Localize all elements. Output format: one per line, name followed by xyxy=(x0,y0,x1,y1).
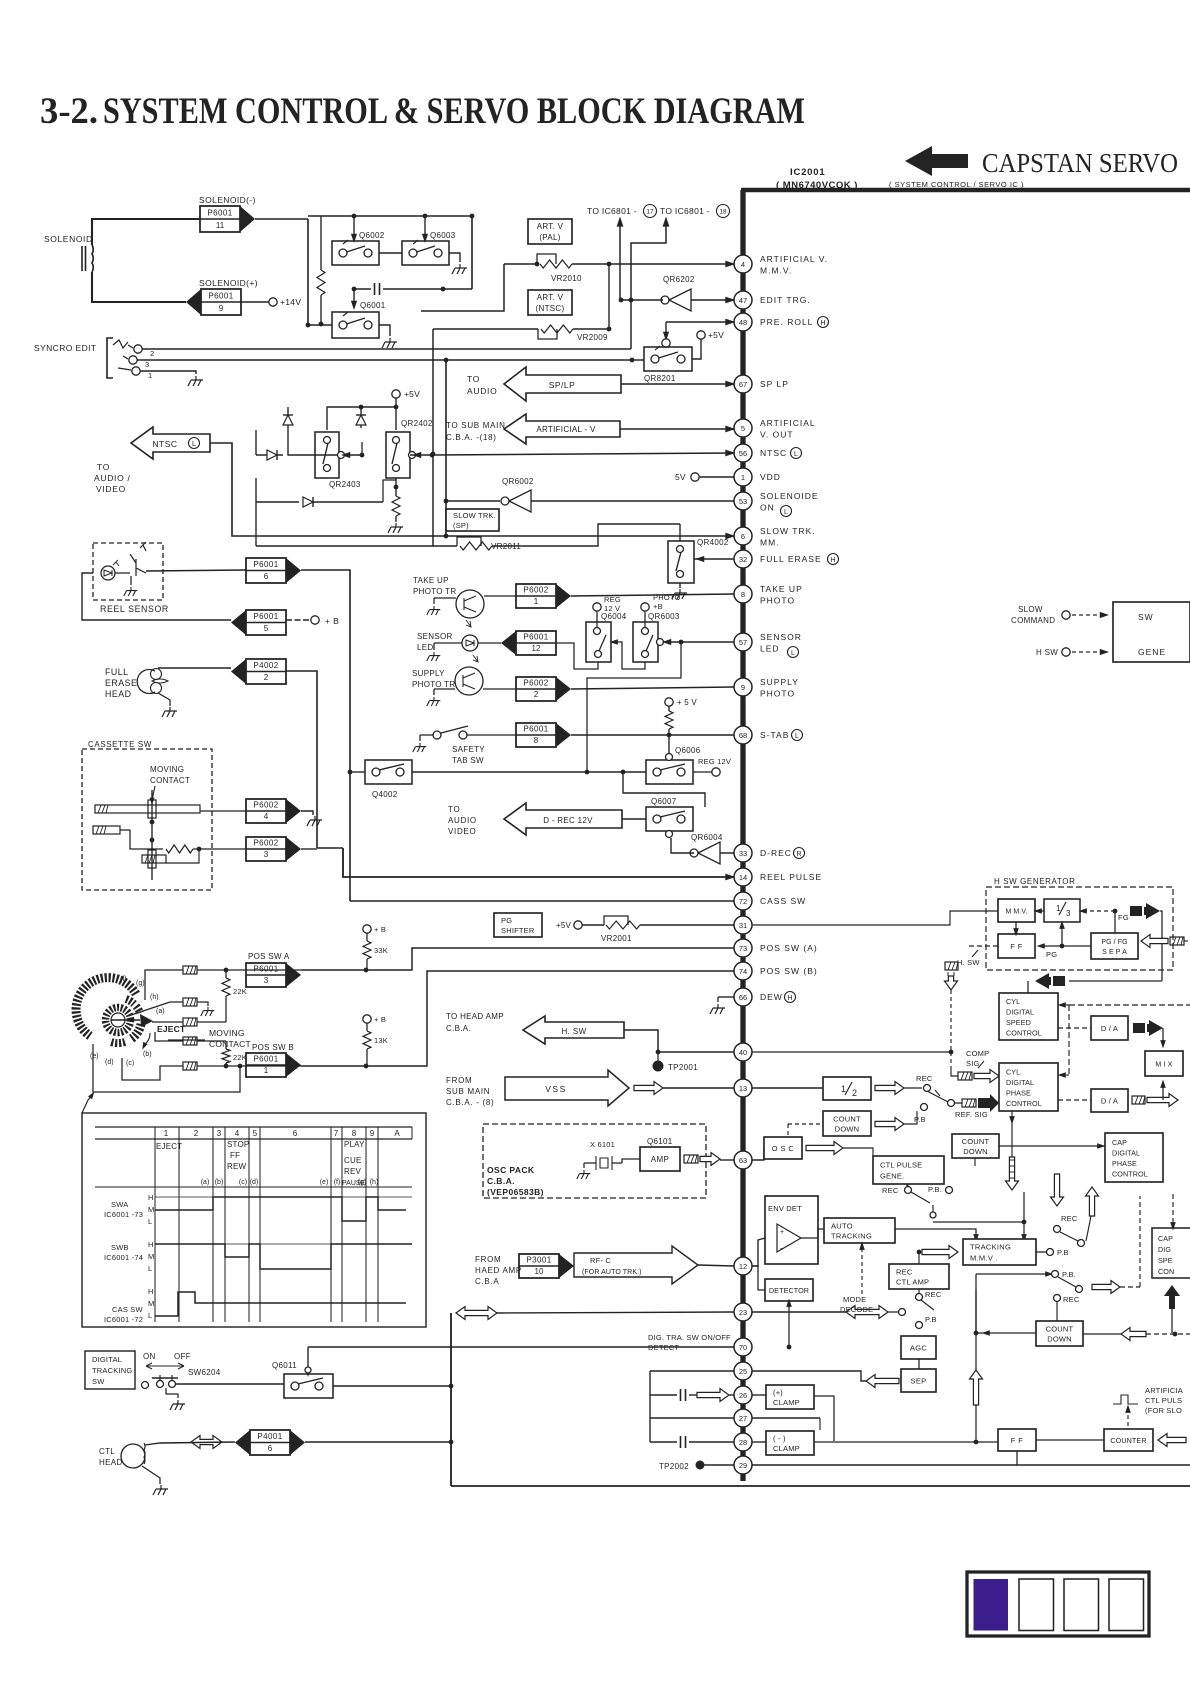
22K resistor A xyxy=(224,968,229,973)
svg-text:12: 12 xyxy=(739,1262,747,1271)
svg-text:AUDIO /: AUDIO / xyxy=(94,473,131,483)
wire count down2 to cap phase xyxy=(999,1145,1105,1147)
wire P4002 right xyxy=(286,671,317,848)
svg-text:H: H xyxy=(830,557,835,564)
dash H SW down xyxy=(950,990,952,1052)
svg-text:SW: SW xyxy=(92,1377,105,1386)
svg-text:P6001: P6001 xyxy=(207,209,232,218)
svg-text:DIGITAL: DIGITAL xyxy=(1112,1148,1140,1157)
wire P6001-8 to pin68 xyxy=(571,734,734,736)
wire QR6002 output vertical xyxy=(445,360,447,536)
wire ctl pulse gene down xyxy=(906,1184,908,1186)
svg-text:EDIT TRG.: EDIT TRG. xyxy=(760,295,811,305)
svg-text:FULL ERASE: FULL ERASE xyxy=(760,554,822,564)
svg-text:SEP: SEP xyxy=(911,1377,927,1386)
rotary row3 xyxy=(183,1018,197,1026)
svg-text:PRE. ROLL: PRE. ROLL xyxy=(760,317,813,327)
block 1/3 xyxy=(1044,899,1080,922)
svg-text:33: 33 xyxy=(739,849,747,858)
svg-text:GENE.: GENE. xyxy=(880,1172,904,1181)
wire to IC6801-17 xyxy=(619,220,621,300)
svg-text:L: L xyxy=(148,1217,153,1226)
svg-text:+5V: +5V xyxy=(708,330,724,340)
svg-text:REEL SENSOR: REEL SENSOR xyxy=(100,604,169,614)
SWB waveform xyxy=(155,1244,412,1269)
H.SW GENERATOR dashed box xyxy=(986,887,1173,970)
svg-text:+ B: + B xyxy=(374,1015,386,1024)
wire SP/LP to pin67 xyxy=(621,383,734,385)
svg-text:REEL PULSE: REEL PULSE xyxy=(760,872,822,882)
svg-text:CYL: CYL xyxy=(1006,997,1020,1006)
wire solenoid top to P6001-11 xyxy=(92,219,200,245)
svg-text:L: L xyxy=(791,650,795,657)
bottom rail horizontal xyxy=(451,1485,1190,1487)
connector P6001-11 xyxy=(200,206,240,232)
connector P6002-3 xyxy=(246,837,286,861)
pin 14 xyxy=(734,868,752,886)
block MMV xyxy=(998,899,1035,922)
svg-text:(NTSC): (NTSC) xyxy=(536,304,565,313)
svg-text:COUNTER: COUNTER xyxy=(1110,1436,1146,1445)
svg-text:40: 40 xyxy=(739,1048,747,1057)
svg-text:57: 57 xyxy=(739,638,747,647)
svg-text:TP2002: TP2002 xyxy=(659,1462,689,1471)
svg-text:CAPSTAN SERVO: CAPSTAN SERVO xyxy=(982,148,1178,178)
svg-text:S-TAB: S-TAB xyxy=(760,730,789,740)
svg-text:SYNCRO EDIT: SYNCRO EDIT xyxy=(34,343,97,353)
svg-text:(c): (c) xyxy=(126,1060,134,1067)
wire D-REC to Q6007 xyxy=(622,818,646,820)
wire env det to auto tracking xyxy=(801,1229,824,1238)
svg-text:H SW: H SW xyxy=(1036,648,1058,657)
svg-text:POS SW B: POS SW B xyxy=(252,1043,294,1052)
wire Q6006 left node xyxy=(412,771,646,773)
svg-text:PG: PG xyxy=(501,916,512,925)
svg-text:+B: +B xyxy=(653,602,663,611)
second feed into tracking mmv top xyxy=(1023,1192,1025,1237)
connector P6001-1 xyxy=(246,1053,286,1077)
connector P4001-6 xyxy=(250,1430,290,1455)
svg-text:28: 28 xyxy=(739,1438,747,1447)
svg-text:REC: REC xyxy=(925,1290,942,1299)
wire pin28 to clamp- xyxy=(752,1441,766,1443)
block COUNT DOWN 2 xyxy=(952,1134,999,1158)
svg-text:63: 63 xyxy=(739,1156,747,1165)
svg-text:AUDIO: AUDIO xyxy=(467,386,497,396)
wire P6002-1 to pin8 xyxy=(571,594,734,596)
svg-text:SPE: SPE xyxy=(1158,1256,1173,1265)
rotary row5 xyxy=(183,1062,197,1070)
block AGC xyxy=(901,1336,936,1359)
svg-text:4: 4 xyxy=(741,260,745,269)
svg-text:AUTO: AUTO xyxy=(831,1222,853,1231)
connector P4002-2 xyxy=(246,659,286,684)
svg-text:VR2001: VR2001 xyxy=(601,934,632,943)
+B 13K B xyxy=(363,1015,371,1023)
open arrow into SEP xyxy=(866,1375,899,1388)
wire P4001 to rail xyxy=(305,1441,451,1443)
svg-text:22K: 22K xyxy=(233,1053,247,1062)
dash into phase from right xyxy=(1058,1072,1066,1078)
open arrow after count down 1 xyxy=(875,1118,904,1131)
double arrow CTL xyxy=(191,1436,222,1449)
svg-text:FF: FF xyxy=(230,1151,240,1160)
svg-text:CUE: CUE xyxy=(344,1156,362,1165)
wire P6001-5 to +B xyxy=(286,619,311,621)
svg-text:L: L xyxy=(148,1264,153,1273)
wire P6001-5 left xyxy=(82,573,231,620)
wire pin48 down to QR8201 xyxy=(665,322,667,334)
wire pin33 xyxy=(720,852,734,854)
svg-text:POS SW A: POS SW A xyxy=(248,952,290,961)
svg-text:DEW: DEW xyxy=(760,992,783,1002)
svg-text:CTL AMP: CTL AMP xyxy=(896,1278,929,1287)
pin 70 xyxy=(734,1338,752,1356)
open arrow into PG/FG SEPA xyxy=(1141,935,1168,948)
connector P6001-3 xyxy=(246,963,286,987)
svg-text:M: M xyxy=(148,1299,155,1308)
svg-text:SW: SW xyxy=(1138,612,1154,622)
svg-text:CAP: CAP xyxy=(1158,1234,1173,1243)
svg-text:CAP: CAP xyxy=(1112,1138,1127,1147)
dashed feed to count down xyxy=(788,1123,823,1125)
svg-text:P6002: P6002 xyxy=(523,586,548,595)
svg-text:2: 2 xyxy=(852,1088,857,1098)
svg-text:P4001: P4001 xyxy=(257,1432,282,1441)
svg-text:CTL: CTL xyxy=(99,1447,115,1456)
svg-text:29: 29 xyxy=(739,1461,747,1470)
svg-text:2: 2 xyxy=(534,690,539,699)
svg-text:DECODE: DECODE xyxy=(840,1305,873,1314)
svg-text:P6001: P6001 xyxy=(523,725,548,734)
wire syncro line A xyxy=(142,348,631,350)
svg-text:1: 1 xyxy=(148,371,152,380)
+B 33K A xyxy=(363,925,371,933)
svg-text:P6001: P6001 xyxy=(208,292,233,301)
rotary switch body xyxy=(76,978,141,1044)
up arrow to tracking mmv xyxy=(975,1405,977,1442)
svg-text:IC6001 -73: IC6001 -73 xyxy=(104,1210,143,1219)
svg-text:VR2010: VR2010 xyxy=(551,274,582,283)
svg-text:IC6001 -72: IC6001 -72 xyxy=(104,1315,143,1324)
IC2001 bus top horizontal xyxy=(741,188,1190,193)
wire P6001-9 to +14V xyxy=(241,301,269,303)
svg-text:P.B: P.B xyxy=(914,1115,926,1124)
svg-text:VR2009: VR2009 xyxy=(577,333,608,342)
svg-text:(d): (d) xyxy=(250,1179,259,1186)
svg-text:4: 4 xyxy=(264,812,269,821)
block CAP DIG SPEE CON xyxy=(1152,1228,1190,1278)
svg-text:PG / FG: PG / FG xyxy=(1101,939,1127,946)
artificial ctl pulse glyph xyxy=(1113,1395,1138,1404)
svg-text:32: 32 xyxy=(739,555,747,564)
svg-text:DOWN: DOWN xyxy=(963,1147,988,1156)
vertical join pins25-28 xyxy=(649,1371,651,1442)
svg-text:(h): (h) xyxy=(150,994,159,1001)
PHOTO +B QR6003 xyxy=(641,603,649,611)
PB above AGC xyxy=(916,1322,923,1329)
svg-text:2: 2 xyxy=(150,349,154,358)
svg-text:C.B.A: C.B.A xyxy=(475,1277,499,1286)
wire pin14 long xyxy=(317,847,343,849)
svg-text:X 6101: X 6101 xyxy=(590,1140,615,1149)
svg-text:O S C: O S C xyxy=(772,1144,795,1153)
svg-text:POS SW (B): POS SW (B) xyxy=(760,966,818,976)
svg-text:SLOW: SLOW xyxy=(1018,605,1043,614)
svg-text:AGC: AGC xyxy=(910,1344,927,1353)
svg-text:3: 3 xyxy=(264,850,269,859)
svg-text:(f): (f) xyxy=(120,976,127,983)
wire pin40 xyxy=(624,1030,734,1052)
svg-text:4: 4 xyxy=(235,1129,240,1138)
svg-text:47: 47 xyxy=(739,296,747,305)
svg-text:Q6004: Q6004 xyxy=(601,612,627,621)
svg-text:COMMAND: COMMAND xyxy=(1011,616,1055,625)
svg-text:PHOTO TR: PHOTO TR xyxy=(412,680,455,689)
svg-text:P6001: P6001 xyxy=(253,612,278,621)
svg-text:( - ): ( - ) xyxy=(773,1434,786,1443)
svg-text:F F: F F xyxy=(1011,1436,1023,1445)
hatched down arrow 2 xyxy=(1051,1174,1064,1206)
svg-text:P6001: P6001 xyxy=(253,560,278,569)
svg-text:8: 8 xyxy=(534,736,539,745)
svg-text:EJECT: EJECT xyxy=(157,1024,186,1034)
svg-text:REC: REC xyxy=(896,1268,913,1277)
svg-text:DIGITAL: DIGITAL xyxy=(1006,1078,1034,1087)
wire to black up arrow xyxy=(1171,1309,1173,1333)
svg-text:P6001: P6001 xyxy=(253,1055,278,1064)
svg-text:3: 3 xyxy=(217,1129,222,1138)
block OSC xyxy=(764,1137,802,1159)
svg-text:66: 66 xyxy=(739,993,747,1002)
svg-text:CLAMP: CLAMP xyxy=(773,1398,800,1407)
svg-text:(FOR AUTO TRK.): (FOR AUTO TRK.) xyxy=(582,1269,642,1276)
svg-text:2: 2 xyxy=(194,1129,199,1138)
+5V QR8201 xyxy=(697,331,705,339)
svg-text:REC: REC xyxy=(1061,1214,1078,1223)
wire QR6002 in from pin53 xyxy=(531,500,734,502)
svg-text:IC2001: IC2001 xyxy=(790,167,825,178)
wire pin26 to clamp+ xyxy=(752,1394,766,1396)
svg-text:GENE: GENE xyxy=(1138,647,1166,657)
wire pin31 to MMV xyxy=(752,911,998,925)
svg-text:22K: 22K xyxy=(233,987,247,996)
svg-text:(+): (+) xyxy=(773,1388,783,1397)
block ART.V (NTSC) xyxy=(528,290,572,315)
svg-text:TO IC6801 -: TO IC6801 - xyxy=(660,206,710,216)
svg-text:Q6001: Q6001 xyxy=(360,301,386,310)
reel sensor LED xyxy=(101,566,115,580)
svg-text:NTSC: NTSC xyxy=(152,439,177,449)
pin 57 xyxy=(734,633,752,651)
wire QR2403 left xyxy=(288,448,337,455)
svg-text:M: M xyxy=(148,1205,155,1214)
svg-text:ART. V: ART. V xyxy=(537,222,564,231)
block AUTO TRACKING xyxy=(824,1218,895,1243)
dash into cap dig spee con top xyxy=(1172,1194,1174,1224)
svg-text:R: R xyxy=(796,851,801,858)
svg-text:1: 1 xyxy=(164,1129,169,1138)
wire pin25 xyxy=(752,1371,866,1381)
wire solenoid bottom to P6001-9 xyxy=(92,272,186,302)
svg-text:CAS SW: CAS SW xyxy=(112,1305,144,1314)
svg-text:ENV DET: ENV DET xyxy=(768,1204,802,1213)
dash speed to DA xyxy=(1058,1027,1091,1029)
svg-text:D / A: D / A xyxy=(1101,1024,1118,1033)
svg-text:QR6003: QR6003 xyxy=(648,612,680,621)
connector P6001-9 xyxy=(201,289,241,315)
svg-text:SWA: SWA xyxy=(111,1200,128,1209)
wire P6002-3 right xyxy=(301,848,317,850)
svg-text:L: L xyxy=(784,509,788,516)
svg-text:TRACKING: TRACKING xyxy=(970,1243,1011,1252)
lower diode branch xyxy=(256,501,299,503)
wire FG right xyxy=(1160,911,1162,981)
svg-text:FULL: FULL xyxy=(105,667,129,677)
svg-text:TAB SW: TAB SW xyxy=(452,756,484,765)
svg-text:(f): (f) xyxy=(334,1179,341,1186)
pin 27 xyxy=(734,1409,752,1427)
svg-text:REV: REV xyxy=(344,1167,362,1176)
svg-text:13: 13 xyxy=(739,1084,747,1093)
svg-text:27: 27 xyxy=(739,1414,747,1423)
wire Q6001 left xyxy=(308,296,332,325)
svg-text:SP/LP: SP/LP xyxy=(549,380,576,390)
svg-text:(PAL): (PAL) xyxy=(539,233,560,242)
wire AGC to SEP xyxy=(918,1359,920,1369)
svg-text:OSC PACK: OSC PACK xyxy=(487,1165,535,1175)
svg-text:VIDEO: VIDEO xyxy=(448,827,476,836)
wire syncro line B xyxy=(137,359,632,361)
svg-text:+ B: + B xyxy=(325,616,339,626)
svg-text:(FOR SLO: (FOR SLO xyxy=(1145,1406,1182,1415)
wire pin70 long xyxy=(308,1346,734,1348)
wire Q6011 right to bottom rail xyxy=(333,1385,451,1387)
svg-text:SUB MAIN: SUB MAIN xyxy=(446,1087,490,1096)
svg-text:P.B: P.B xyxy=(925,1315,937,1324)
svg-text:+5V: +5V xyxy=(556,921,572,930)
+5V S-TAB xyxy=(665,698,673,706)
wire top rail to Q6002 Q6003 xyxy=(308,215,472,217)
wire comp sig into phase xyxy=(998,1075,1000,1077)
block CYL DIGITAL SPEED CONTROL xyxy=(999,993,1058,1040)
svg-text:FG: FG xyxy=(1118,913,1129,922)
svg-text:P6002: P6002 xyxy=(253,839,278,848)
svg-text:3: 3 xyxy=(264,976,269,985)
svg-text:H: H xyxy=(787,995,792,1002)
svg-text:H SW GENERATOR: H SW GENERATOR xyxy=(994,877,1075,886)
rotary slant route row2 xyxy=(128,1002,183,1016)
svg-text:VIDEO: VIDEO xyxy=(96,484,126,494)
wire Q6011 top to pin70 line xyxy=(307,1347,309,1374)
svg-text:Q4002: Q4002 xyxy=(372,790,398,799)
TP2001 xyxy=(656,1050,661,1055)
diode D mid xyxy=(360,407,362,428)
QR2403 right contact xyxy=(338,452,345,459)
block CYL DIGITAL PHASE CONTROL xyxy=(999,1063,1058,1111)
dash vertical right of speed xyxy=(1068,1005,1070,1075)
svg-text:AUDIO: AUDIO xyxy=(448,816,477,825)
svg-text:33K: 33K xyxy=(374,946,388,955)
block SLOW TRK (SP) xyxy=(446,509,499,531)
pin57 branch down xyxy=(587,642,681,772)
block (+) CLAMP xyxy=(766,1385,814,1409)
CAS waveform xyxy=(155,1292,406,1316)
svg-text:12 V: 12 V xyxy=(604,604,620,613)
block MIX xyxy=(1145,1051,1183,1076)
svg-text:DETECT: DETECT xyxy=(648,1343,679,1352)
svg-text:VSS: VSS xyxy=(545,1084,567,1094)
hatch open arrow DA2 to mix xyxy=(1132,1096,1145,1104)
pin 74 xyxy=(734,962,752,980)
ground DEW xyxy=(718,996,734,998)
block ENV DET xyxy=(765,1196,818,1264)
svg-text:MOVING: MOVING xyxy=(150,765,184,774)
ground CTL head xyxy=(142,1466,160,1484)
wire reel sensor to P6001-6 xyxy=(115,572,130,574)
svg-text:+14V: +14V xyxy=(280,297,301,307)
svg-text:6: 6 xyxy=(741,532,745,541)
svg-text:P6001: P6001 xyxy=(523,633,548,642)
wire VR2009 to pin4 node xyxy=(573,264,609,329)
arrow RF-C xyxy=(574,1246,698,1284)
pin 63 xyxy=(734,1151,752,1169)
svg-text:SW6204: SW6204 xyxy=(188,1368,221,1377)
table grid xyxy=(95,1126,412,1128)
svg-text:SOLENOID: SOLENOID xyxy=(44,234,93,244)
svg-text:H: H xyxy=(820,320,825,327)
open arrow pin26 xyxy=(697,1389,729,1402)
dash to counter xyxy=(1127,1408,1129,1427)
wire FG to 1/3 xyxy=(1080,910,1115,912)
svg-text:NTSC: NTSC xyxy=(760,448,787,458)
svg-text:56: 56 xyxy=(739,449,747,458)
block PG/FG SEPA xyxy=(1091,933,1138,959)
svg-text:MODE: MODE xyxy=(843,1295,866,1304)
svg-text:QR2403: QR2403 xyxy=(329,480,361,489)
SW GENE box xyxy=(1113,602,1190,662)
svg-text:TO IC6801 -: TO IC6801 - xyxy=(587,206,637,216)
svg-text:(g): (g) xyxy=(358,1179,367,1186)
svg-text:COUNT: COUNT xyxy=(833,1115,861,1124)
capstan servo arrow xyxy=(905,146,968,176)
svg-text:(d): (d) xyxy=(105,1059,114,1066)
svg-text:31: 31 xyxy=(739,921,747,930)
svg-text:H. SW: H. SW xyxy=(957,958,980,967)
svg-text:1: 1 xyxy=(841,1084,846,1094)
svg-text:SIG: SIG xyxy=(966,1059,980,1068)
open arrow after 1/2 xyxy=(875,1082,904,1095)
svg-text:CTL PULSE: CTL PULSE xyxy=(880,1161,922,1170)
wire 1/3 to MMV xyxy=(1035,910,1044,912)
open arrow to tracking mmv xyxy=(922,1246,958,1259)
connector P6002-2 xyxy=(516,677,556,701)
svg-text:REC: REC xyxy=(882,1186,899,1195)
block (-) CLAMP xyxy=(766,1431,814,1455)
connector P6001-12 xyxy=(516,631,556,655)
svg-text:SOLENOID(-): SOLENOID(-) xyxy=(199,195,256,205)
svg-text:PG: PG xyxy=(1046,950,1057,959)
svg-text:PHOTO: PHOTO xyxy=(760,689,795,699)
svg-text:2: 2 xyxy=(264,673,269,682)
svg-text:73: 73 xyxy=(739,944,747,953)
svg-text:(VEP06583B): (VEP06583B) xyxy=(487,1187,544,1197)
svg-text:CONTROL: CONTROL xyxy=(1112,1169,1148,1178)
connector P6002-4 xyxy=(246,799,286,823)
svg-text:RF- C: RF- C xyxy=(590,1256,611,1265)
wire Q4002 left xyxy=(350,771,365,773)
wire pin72 long xyxy=(349,876,351,878)
